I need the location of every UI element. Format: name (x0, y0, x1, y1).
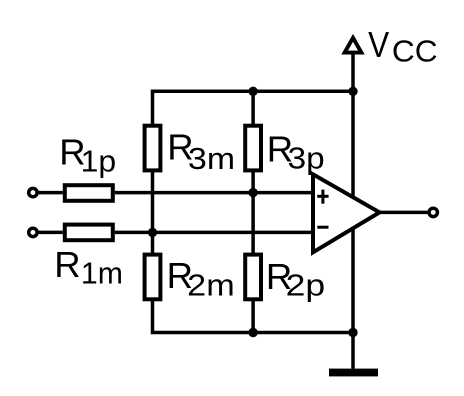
terminal input plus (29, 188, 37, 196)
resistor R1p (65, 185, 113, 201)
svg-text:3p: 3p (288, 141, 325, 175)
svg-text:2p: 2p (286, 269, 326, 303)
svg-text:2m: 2m (187, 268, 235, 302)
svg-text:1m: 1m (81, 257, 123, 291)
svg-text:CC: CC (392, 35, 438, 69)
wire left column middle (151, 171, 155, 254)
op-amp plus sign (317, 190, 328, 204)
label R1m (54, 244, 123, 291)
label R2m (167, 255, 235, 302)
terminal input minus (29, 228, 37, 236)
svg-text:3m: 3m (188, 142, 235, 176)
terminal output (429, 208, 437, 216)
op-amp minus sign (317, 226, 328, 229)
node junction bottom ground rail (348, 328, 357, 337)
node junction bottom R2p (248, 328, 257, 337)
node junction minus wire R3m column (148, 228, 157, 237)
wire right column middle (251, 171, 255, 254)
node junction top Vcc (348, 87, 357, 96)
resistor R1m (65, 225, 113, 241)
wire plus input to op-amp (115, 191, 314, 195)
Vcc arrow (345, 38, 362, 53)
wire plus input (37, 191, 63, 195)
svg-text:V: V (368, 24, 390, 65)
node junction plus wire R3p column (248, 188, 257, 197)
label R1p (59, 132, 116, 179)
resistor R2m (145, 255, 161, 300)
op-amp U1 (313, 174, 380, 252)
resistor R3p (245, 126, 261, 171)
label R3p (267, 128, 325, 175)
label Vcc (368, 24, 438, 69)
resistor R2p (245, 255, 261, 300)
wire top rail (153, 91, 354, 125)
wire minus input to op-amp (115, 231, 314, 235)
label R2p (266, 256, 325, 303)
label R3m (167, 127, 235, 177)
node junction top R3p (248, 87, 257, 96)
wire Vcc rail (351, 53, 355, 369)
svg-text:R: R (54, 244, 80, 285)
resistor R3m (145, 126, 161, 171)
wire minus input (37, 231, 63, 235)
ground (329, 369, 378, 377)
wire output (380, 211, 428, 215)
wire bottom rail (153, 300, 354, 333)
svg-text:1p: 1p (81, 145, 117, 179)
wire R2p bottom lead (251, 300, 255, 333)
wire R3p top lead (251, 91, 255, 125)
